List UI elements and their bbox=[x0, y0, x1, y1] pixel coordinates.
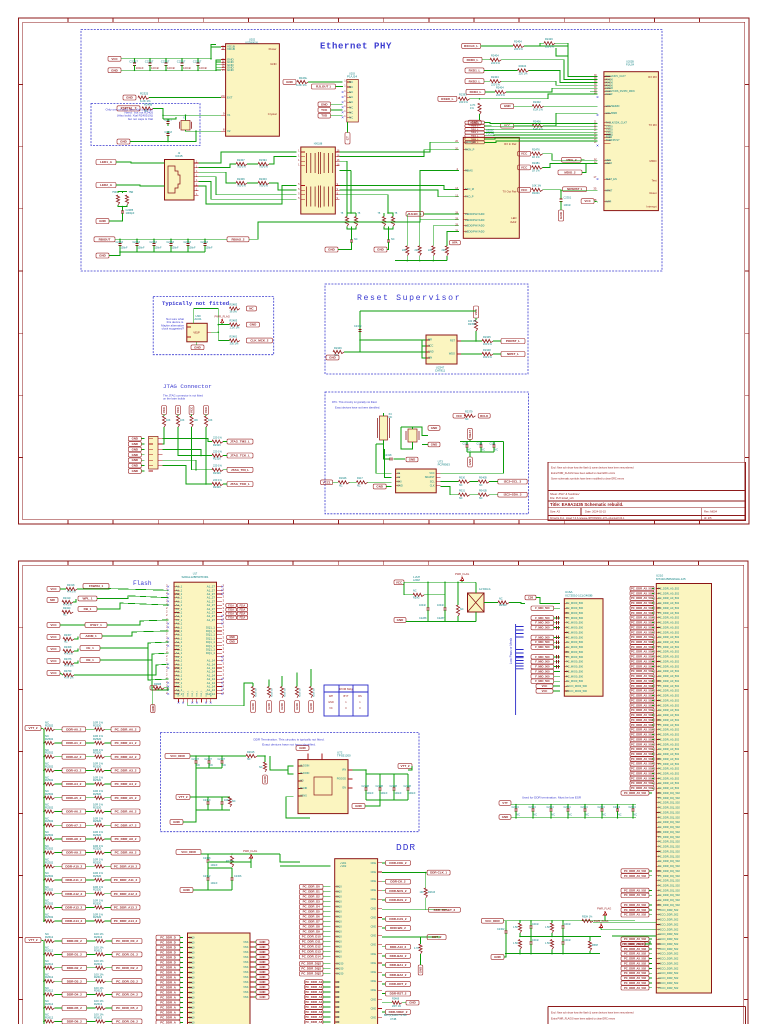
resistor R2308 bbox=[63, 649, 74, 652]
svg-text:R2348: R2348 bbox=[483, 348, 491, 352]
svg-text:PC_DDR_A5_502: PC_DDR_A5_502 bbox=[624, 952, 646, 956]
wire bbox=[74, 637, 78, 640]
svg-text:INTR: INTR bbox=[606, 201, 612, 204]
net label GND vertical bbox=[468, 457, 473, 467]
svg-text:DQ0: DQ0 bbox=[336, 950, 342, 954]
svg-text:DQ0: DQ0 bbox=[189, 955, 195, 959]
U202B pin INT bbox=[604, 201, 610, 203]
svg-text:GND: GND bbox=[280, 703, 284, 709]
svg-text:C2404: C2404 bbox=[629, 806, 637, 809]
svg-text:220 1%: 220 1% bbox=[496, 93, 505, 97]
svg-text:GND: GND bbox=[250, 323, 258, 327]
ROM config table bbox=[324, 685, 368, 716]
svg-text:VCC: VCC bbox=[396, 580, 403, 584]
svg-text:DQ0: DQ0 bbox=[336, 900, 342, 904]
resistor R1391 bbox=[418, 246, 421, 256]
svg-text:R2402: R2402 bbox=[533, 100, 541, 104]
resistor R2621 100 bbox=[96, 953, 106, 956]
net label GND vertical flash left bbox=[151, 705, 155, 713]
wire pullup bbox=[205, 415, 207, 417]
svg-text:COL/RMB: COL/RMB bbox=[606, 112, 618, 115]
resistor R2769 bbox=[63, 673, 74, 676]
svg-text:GND: GND bbox=[132, 447, 138, 451]
svg-text:DQ0: DQ0 bbox=[336, 930, 342, 934]
svg-text:Extra PWR_FLAGS have been adde: Extra PWR_FLAGS have been added to clear… bbox=[551, 472, 616, 475]
svg-text:PC_DDR_DQ_502: PC_DDR_DQ_502 bbox=[658, 884, 680, 888]
resistor R041B bbox=[478, 493, 489, 496]
svg-text:DDR-CLK_1: DDR-CLK_1 bbox=[430, 871, 447, 875]
svg-text:NC: NC bbox=[144, 109, 148, 113]
wire txd bbox=[484, 141, 597, 142]
svg-text:PC_DDR_D4_2: PC_DDR_D4_2 bbox=[116, 993, 138, 997]
net label DDR pin row 20 bbox=[630, 684, 654, 688]
U72 top pins bbox=[308, 754, 322, 760]
svg-text:DQ0: DQ0 bbox=[189, 1020, 195, 1024]
svg-text:VCCO_DDR_502: VCCO_DDR_502 bbox=[658, 947, 679, 951]
svg-text:R2481: R2481 bbox=[230, 334, 238, 338]
svg-text:R2325: R2325 bbox=[140, 92, 149, 96]
net label RXD2_L bbox=[465, 79, 484, 84]
wire bbox=[55, 920, 62, 922]
net label DDR-ODT_2 bbox=[382, 983, 386, 985]
svg-text:PC_DDR_A5_502: PC_DDR_A5_502 bbox=[631, 669, 653, 673]
svg-text:NC: NC bbox=[413, 590, 417, 593]
svg-text:R2348 10K: R2348 10K bbox=[314, 687, 316, 697]
net label DDR pin row 77 bbox=[621, 961, 649, 965]
svg-text:220 1%: 220 1% bbox=[519, 72, 528, 76]
svg-text:GND: GND bbox=[132, 464, 138, 468]
U17 bottom pins bbox=[179, 699, 211, 703]
resistor R030 bbox=[459, 480, 470, 483]
svg-text:GND: GND bbox=[132, 458, 138, 462]
net label DDR pin row 9 bbox=[630, 630, 654, 634]
svg-text:RXD2_L: RXD2_L bbox=[469, 79, 481, 83]
svg-text:R2613: R2613 bbox=[94, 1002, 103, 1006]
svg-text:NC: NC bbox=[339, 485, 343, 488]
svg-text:PC_DDR_A: PC_DDR_A bbox=[160, 1001, 176, 1005]
net label DDR pin row 36 bbox=[630, 762, 654, 766]
net label GND bbox=[128, 469, 141, 474]
net label DDR pin row 16 bbox=[630, 664, 654, 668]
svg-text:VCC: VCC bbox=[50, 587, 57, 591]
net label PC_DDR_A14 bbox=[156, 1005, 180, 1010]
svg-text:GND: GND bbox=[468, 459, 472, 465]
net label XSPTAL_2 bbox=[117, 106, 140, 111]
svg-text:PC_DDR_A5_502: PC_DDR_A5_502 bbox=[631, 708, 653, 712]
svg-text:VCCO_DDR_502: VCCO_DDR_502 bbox=[658, 918, 679, 922]
capacitor C2349 bbox=[358, 330, 361, 332]
wire bbox=[74, 661, 78, 664]
svg-text:DDR-A3_2: DDR-A3_2 bbox=[66, 769, 81, 773]
net label DDR pin row 0 bbox=[630, 586, 654, 590]
resistor R2407 750 1% bbox=[236, 162, 247, 165]
svg-text:24: 24 bbox=[221, 94, 225, 98]
svg-text:VSS_1: VSS_1 bbox=[210, 691, 212, 697]
svg-text:DDR-A4_2: DDR-A4_2 bbox=[66, 782, 81, 786]
svg-text:RXD3_L: RXD3_L bbox=[470, 90, 482, 94]
svg-text:VLDOIN: VLDOIN bbox=[300, 765, 310, 768]
sheet border frame bbox=[19, 18, 750, 524]
net label DDR pin row 40 bbox=[630, 781, 654, 785]
svg-text:CKE: CKE bbox=[371, 906, 377, 910]
net label VCC bbox=[47, 671, 60, 676]
wire bbox=[190, 755, 246, 757]
svg-text:PC_DDR_A7: PC_DDR_A7 bbox=[305, 1015, 323, 1019]
svg-text:PC_DDR_A: PC_DDR_A bbox=[160, 1011, 176, 1015]
svg-text:TPS51200: TPS51200 bbox=[337, 754, 351, 758]
svg-text:R2502: R2502 bbox=[45, 901, 54, 905]
wire bbox=[55, 852, 62, 854]
svg-text:PC_DDR_A5_502: PC_DDR_A5_502 bbox=[624, 947, 646, 951]
resistor R2342b vertical bbox=[550, 940, 553, 950]
net label PC_DDR_D1 bbox=[156, 940, 180, 945]
resistor R2358 vertical bbox=[230, 856, 233, 867]
svg-text:VCCO_DDR_502: VCCO_DDR_502 bbox=[658, 961, 679, 965]
wire crystal loop bbox=[401, 427, 428, 436]
svg-text:PC_DDR_A5_502: PC_DDR_A5_502 bbox=[631, 776, 653, 780]
net label DDR-BA2_2 bbox=[382, 974, 386, 976]
wire pullup bbox=[163, 415, 165, 417]
U202C pins bbox=[463, 142, 467, 150]
resistor R2388f bbox=[153, 686, 164, 689]
svg-text:VCC: VCC bbox=[521, 188, 528, 192]
svg-text:PC_DDR_A5_502: PC_DDR_A5_502 bbox=[631, 591, 653, 595]
svg-text:R53H 1%: R53H 1% bbox=[582, 916, 593, 919]
svg-text:DQ0: DQ0 bbox=[336, 895, 342, 899]
resistor R2520 10R bbox=[95, 728, 105, 731]
net label PC_DDR_A7 bbox=[305, 1015, 323, 1020]
svg-text:R2502: R2502 bbox=[45, 737, 54, 741]
net label DDR pin row 67 bbox=[621, 913, 649, 917]
net label JTAG_TDO_L bbox=[227, 482, 253, 487]
svg-text:Sheet: /PHY & Sundries/: Sheet: /PHY & Sundries/ bbox=[550, 492, 580, 496]
svg-text:4.7K 1%: 4.7K 1% bbox=[64, 677, 74, 680]
resistor R25212 10R bbox=[95, 892, 105, 895]
net label GND bbox=[96, 219, 109, 224]
svg-text:C2363: C2363 bbox=[116, 241, 124, 244]
svg-text:F21A: F21A bbox=[240, 617, 246, 620]
svg-text:PC_DDR_A0_502: PC_DDR_A0_502 bbox=[658, 747, 680, 751]
capacitor C2398 bbox=[388, 227, 390, 241]
capacitor C2300 100nF bbox=[134, 59, 136, 63]
svg-text:TXO_M: TXO_M bbox=[465, 187, 474, 191]
svg-text:F_MIO_500: F_MIO_500 bbox=[535, 669, 550, 673]
svg-text:PC_DDR_A: PC_DDR_A bbox=[160, 1016, 176, 1020]
svg-text:PC_MIO0_500: PC_MIO0_500 bbox=[566, 674, 584, 678]
svg-text:C2404: C2404 bbox=[581, 806, 589, 809]
wire LED2 bbox=[116, 185, 165, 186]
svg-text:CKE: CKE bbox=[371, 988, 377, 992]
svg-text:PC_DDR_A5_502: PC_DDR_A5_502 bbox=[624, 874, 646, 878]
wire wdo bbox=[461, 353, 482, 355]
svg-text:PC_DDR_A0_502: PC_DDR_A0_502 bbox=[658, 606, 680, 610]
svg-text:DDR-CK_2: DDR-CK_2 bbox=[390, 880, 406, 884]
capacitor C2403 term bbox=[567, 805, 569, 809]
net label MIO8 bbox=[531, 640, 554, 644]
svg-text:DDR-A6_2: DDR-A6_2 bbox=[66, 810, 81, 814]
svg-text:100nF: 100nF bbox=[409, 792, 417, 795]
svg-text:VCCO_DDR_502: VCCO_DDR_502 bbox=[658, 952, 679, 956]
svg-text:R2326: R2326 bbox=[213, 485, 221, 489]
svg-text:220 1%: 220 1% bbox=[491, 61, 500, 65]
svg-text:TXCLK_L: TXCLK_L bbox=[470, 122, 480, 124]
net label LED2_A bbox=[96, 183, 116, 188]
U203 no-connect marks bbox=[342, 91, 344, 118]
svg-text:F_MIO_500: F_MIO_500 bbox=[535, 665, 550, 669]
svg-text:LED: LED bbox=[511, 216, 516, 220]
crystal note box bbox=[91, 104, 200, 146]
svg-text:PC_DDR_D1: PC_DDR_D1 bbox=[303, 890, 321, 894]
svg-text:PC_DDR_DQ_502: PC_DDR_DQ_502 bbox=[658, 835, 680, 839]
svg-text:750 1%: 750 1% bbox=[237, 165, 246, 169]
svg-text:PC_DDR_A5_502: PC_DDR_A5_502 bbox=[624, 961, 646, 965]
svg-text:DDR-A5_2: DDR-A5_2 bbox=[66, 796, 81, 800]
net label RJLED_A bbox=[406, 212, 423, 217]
svg-text:VCC: VCC bbox=[429, 472, 434, 475]
svg-text:PC_DDR_A5_502: PC_DDR_A5_502 bbox=[631, 660, 653, 664]
svg-text:R2326: R2326 bbox=[213, 443, 221, 447]
svg-text:PC_DDR_DQ_502: PC_DDR_DQ_502 bbox=[658, 903, 680, 907]
svg-text:R2403: R2403 bbox=[259, 177, 267, 181]
net label DDR-A13_2 bbox=[62, 905, 86, 910]
svg-text:220 1%: 220 1% bbox=[514, 47, 523, 51]
svg-text:C1318: C1318 bbox=[165, 131, 173, 134]
wire cap gnd bbox=[384, 444, 391, 459]
wire rxd bbox=[482, 59, 490, 61]
capacitor C1318 bbox=[167, 131, 169, 134]
net label VCC bbox=[581, 199, 594, 204]
svg-text:C2363: C2363 bbox=[184, 241, 192, 244]
U202B pin TEST bbox=[604, 178, 610, 180]
wire r2429 bbox=[540, 43, 544, 46]
net label MIO1 bbox=[531, 606, 554, 610]
net label DDR pin row 32 bbox=[630, 742, 654, 746]
svg-text:ROM Mdg: ROM Mdg bbox=[339, 687, 353, 691]
svg-text:PC_DDR_DQ_502: PC_DDR_DQ_502 bbox=[658, 830, 680, 834]
net label GND bbox=[128, 436, 141, 441]
wire osc top bbox=[194, 309, 219, 324]
svg-text:PC_DDR_D: PC_DDR_D bbox=[160, 936, 176, 940]
svg-text:C2287: C2287 bbox=[437, 617, 445, 620]
wire bbox=[55, 940, 62, 942]
svg-text:VCCO_DDR_502: VCCO_DDR_502 bbox=[658, 913, 679, 917]
net label FSWRH_1 bbox=[83, 584, 109, 589]
svg-text:R29G: R29G bbox=[413, 596, 420, 599]
resistor R2408b 6.2K bbox=[532, 105, 543, 108]
net label GND small bbox=[256, 950, 269, 954]
net label VCC bbox=[518, 165, 531, 170]
svg-text:Some schematic symbols have be: Some schematic symbols have been modifie… bbox=[551, 478, 625, 481]
svg-text:PC_DDR_A0_502: PC_DDR_A0_502 bbox=[658, 669, 680, 673]
svg-text:PC_DDR_A5_502: PC_DDR_A5_502 bbox=[631, 650, 653, 654]
svg-text:P1/U24: P1/U24 bbox=[626, 64, 635, 67]
svg-text:10K: 10K bbox=[194, 419, 199, 422]
svg-text:PC_DDR_A11_2: PC_DDR_A11_2 bbox=[114, 878, 138, 882]
svg-text:ODT_2: ODT_2 bbox=[432, 935, 442, 939]
svg-text:CKE: CKE bbox=[371, 925, 377, 929]
svg-text:HX1188: HX1188 bbox=[314, 142, 323, 145]
svg-text:PC_DDR_A5_502: PC_DDR_A5_502 bbox=[631, 737, 653, 741]
wire bbox=[257, 756, 265, 762]
svg-text:R2520: R2520 bbox=[93, 723, 102, 727]
net label RBIAS_2 bbox=[227, 237, 249, 242]
net label GND bbox=[501, 104, 514, 109]
svg-text:PC_DDR_A0_502: PC_DDR_A0_502 bbox=[658, 728, 680, 732]
svg-text:100nF: 100nF bbox=[367, 792, 375, 795]
net label CLK_MCK_2 bbox=[246, 338, 272, 343]
svg-text:DQ0: DQ0 bbox=[189, 1000, 195, 1004]
net label MIO14 bbox=[531, 669, 554, 673]
svg-text:GND: GND bbox=[329, 356, 337, 360]
net label DDR pin row 31 bbox=[630, 737, 654, 741]
wire int bbox=[594, 200, 597, 203]
svg-text:R2350: R2350 bbox=[468, 323, 476, 326]
svg-text:NC: NC bbox=[459, 484, 463, 487]
svg-text:NC: NC bbox=[349, 100, 353, 104]
wire rxd bbox=[485, 91, 495, 93]
svg-text:PC_DDR_A5_502: PC_DDR_A5_502 bbox=[624, 888, 646, 892]
net label MIO9 bbox=[531, 645, 554, 649]
net label PC_DDR_A10 bbox=[156, 985, 180, 990]
net label NRST_L bbox=[501, 352, 525, 357]
net label DDR pin row 23 bbox=[630, 698, 654, 702]
capacitor C2307 bbox=[221, 756, 223, 761]
svg-text:PC_DDR_A5_502: PC_DDR_A5_502 bbox=[631, 733, 653, 737]
svg-text:R2520: R2520 bbox=[93, 833, 102, 837]
net label DDR pin row 80 bbox=[621, 976, 649, 980]
net label DDR pin row 5 bbox=[630, 611, 654, 615]
net label MIO7 bbox=[531, 635, 554, 639]
svg-text:PC_DDR_A5_502: PC_DDR_A5_502 bbox=[631, 606, 653, 610]
svg-text:DDR-D4_2: DDR-D4_2 bbox=[67, 993, 82, 997]
resistor R29G bbox=[413, 593, 424, 596]
svg-text:CKE: CKE bbox=[371, 952, 377, 956]
svg-text:PC_DDR_A: PC_DDR_A bbox=[160, 971, 176, 975]
title block sheet 2 (partial) bbox=[548, 1007, 746, 1024]
svg-text:MR: MR bbox=[428, 339, 432, 342]
U75 left pins bbox=[188, 938, 192, 1023]
svg-text:JTAG_TMS_L: JTAG_TMS_L bbox=[230, 440, 250, 444]
svg-text:PC_MIO0_500: PC_MIO0_500 bbox=[566, 611, 584, 615]
svg-text:MDIO: MDIO bbox=[606, 162, 613, 165]
U74 right pins bbox=[378, 863, 382, 1018]
net label GND vertical bbox=[251, 701, 256, 713]
svg-text:PC_DDR_A5_502: PC_DDR_A5_502 bbox=[631, 752, 653, 756]
resistor R2602 NC bbox=[45, 966, 55, 969]
svg-text:Size: A3: Size: A3 bbox=[550, 510, 560, 514]
net label DDR-CKE_2 bbox=[382, 862, 386, 864]
svg-text:DDR-RAS_2: DDR-RAS_2 bbox=[389, 898, 407, 902]
svg-text:VSS: VSS bbox=[243, 995, 248, 999]
net label GND small bbox=[256, 985, 269, 989]
svg-text:PC_MIO0_500: PC_MIO0_500 bbox=[566, 640, 584, 644]
svg-text:PC_DDR_A5_502: PC_DDR_A5_502 bbox=[631, 747, 653, 751]
net label PC_DDR_D11_2 bbox=[300, 939, 324, 944]
svg-text:Reset Supervisor: Reset Supervisor bbox=[357, 293, 461, 303]
svg-text:OE_1: OE_1 bbox=[86, 658, 94, 662]
net label DDR pin row 42 bbox=[621, 791, 649, 795]
svg-text:F_MIO_500: F_MIO_500 bbox=[535, 679, 550, 683]
svg-text:100nF: 100nF bbox=[167, 66, 175, 70]
svg-text:F_MIO_500: F_MIO_500 bbox=[535, 616, 550, 620]
svg-text:R2612: R2612 bbox=[45, 975, 54, 979]
svg-text:WP: WP bbox=[329, 694, 333, 698]
svg-text:VSS: VSS bbox=[243, 945, 248, 949]
svg-text:C2367: C2367 bbox=[145, 60, 154, 64]
net label DDR pin row 18 bbox=[630, 674, 654, 678]
svg-text:PC_DDR_A0_502: PC_DDR_A0_502 bbox=[658, 742, 680, 746]
svg-text:PC_DDR_D3: PC_DDR_D3 bbox=[303, 900, 321, 904]
net label GND vertical bbox=[559, 210, 564, 221]
svg-text:PC_DDR_A5_502: PC_DDR_A5_502 bbox=[631, 767, 653, 771]
svg-text:GND: GND bbox=[126, 96, 134, 100]
net label DDR-NCS_2 bbox=[382, 890, 386, 892]
svg-text:PC_DDR_A5_502: PC_DDR_A5_502 bbox=[624, 957, 646, 961]
svg-text:PC_DDR_A5_502: PC_DDR_A5_502 bbox=[631, 596, 653, 600]
net label DDR-A5_2 bbox=[62, 795, 86, 800]
IC U74 DDR controller bbox=[335, 859, 378, 1024]
net label DDR pin row 1 bbox=[630, 591, 654, 595]
net label NRSRST_1 bbox=[563, 187, 587, 192]
svg-text:Typically not fitted: Typically not fitted bbox=[162, 300, 229, 307]
svg-text:PC_DDR_D4: PC_DDR_D4 bbox=[303, 905, 321, 909]
svg-text:PC_DDR_A0_502: PC_DDR_A0_502 bbox=[658, 772, 680, 776]
svg-text:VCC: VCC bbox=[521, 152, 528, 156]
svg-text:DQ0: DQ0 bbox=[336, 885, 342, 889]
svg-text:NC: NC bbox=[517, 814, 521, 817]
svg-text:DDR-ODT_2: DDR-ODT_2 bbox=[389, 982, 406, 986]
svg-text:100nF: 100nF bbox=[206, 247, 214, 250]
svg-text:FSWRH_1: FSWRH_1 bbox=[89, 584, 104, 588]
svg-text:PC_DDR_A5_502: PC_DDR_A5_502 bbox=[631, 630, 653, 634]
svg-text:PC_DDR_DQ_502: PC_DDR_DQ_502 bbox=[658, 806, 680, 810]
net label PC_DDR_D4_2 bbox=[300, 904, 324, 909]
svg-text:220 1%: 220 1% bbox=[213, 464, 222, 468]
svg-text:PC_DDR_A0_502: PC_DDR_A0_502 bbox=[658, 601, 680, 605]
svg-text:NC: NC bbox=[349, 90, 353, 94]
net label GND right2 bbox=[227, 640, 238, 644]
svg-text:PC_MIO0_500: PC_MIO0_500 bbox=[566, 616, 584, 620]
svg-text:VCC: VCC bbox=[521, 165, 528, 169]
svg-text:36 5%: 36 5% bbox=[230, 310, 238, 314]
svg-text:PC_MIO0_500: PC_MIO0_500 bbox=[566, 626, 584, 630]
resistor R2345 bbox=[482, 339, 493, 342]
resistor R2483 bbox=[229, 323, 240, 326]
U202B pins misc bbox=[604, 106, 610, 113]
svg-text:A0: A0 bbox=[336, 990, 340, 994]
net label DDR pin row 59 bbox=[621, 874, 649, 878]
net label RJLOUT_1 bbox=[312, 84, 336, 89]
wire termination bbox=[118, 192, 127, 194]
resistor R2406 750 1% bbox=[236, 181, 247, 184]
wire vbat bbox=[469, 439, 471, 441]
net label PC_DDR_D3 bbox=[156, 950, 180, 955]
svg-text:JTAG_TDI_L: JTAG_TDI_L bbox=[231, 468, 249, 472]
wires crystal to U73 bbox=[376, 444, 391, 473]
svg-text:PC_DDR_A: PC_DDR_A bbox=[160, 991, 176, 995]
svg-text:R2615: R2615 bbox=[247, 751, 255, 754]
svg-text:JTAG Connector: JTAG Connector bbox=[163, 383, 212, 390]
svg-text:GND: GND bbox=[321, 102, 329, 106]
svg-text:220: 220 bbox=[402, 249, 407, 252]
net label MIO11 bbox=[531, 655, 554, 659]
svg-text:10K 1%: 10K 1% bbox=[532, 184, 542, 188]
svg-text:R2404: R2404 bbox=[496, 86, 504, 90]
svg-text:R041B: R041B bbox=[479, 490, 487, 493]
svg-text:PC_DDR_A0_502: PC_DDR_A0_502 bbox=[658, 679, 680, 683]
svg-text:PC_DDR_DQ_502: PC_DDR_DQ_502 bbox=[658, 864, 680, 868]
svg-text:TCK: TCK bbox=[321, 108, 328, 112]
